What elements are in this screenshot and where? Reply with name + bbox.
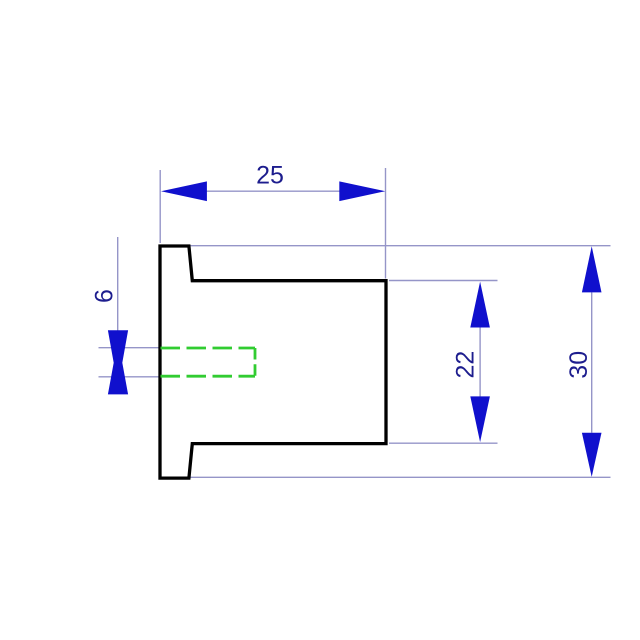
extension line 30-top bbox=[190, 245, 611, 247]
arrow 22-down bbox=[470, 396, 490, 442]
hidden hole bottom edge (green dashed) bbox=[161, 375, 256, 378]
hidden hole top edge (green dashed) bbox=[161, 347, 256, 350]
part outline bbox=[160, 246, 386, 478]
extension line 22-bottom bbox=[389, 442, 498, 444]
arrow 25-right bbox=[339, 181, 385, 201]
svg-text:22: 22 bbox=[452, 351, 480, 379]
extension line 6-bottom bbox=[99, 376, 160, 378]
dimension line 25 bbox=[207, 190, 340, 192]
svg-text:30: 30 bbox=[565, 351, 593, 379]
extension line 25-right bbox=[385, 168, 387, 279]
extension line 30-bottom bbox=[190, 476, 611, 478]
arrow 30-down bbox=[582, 433, 602, 477]
extension line 22-top bbox=[389, 280, 498, 282]
extension line 6-top bbox=[99, 347, 160, 349]
dimension line 22 bbox=[479, 328, 481, 397]
arrow pair 6 (hourglass bowtie) bbox=[108, 330, 128, 394]
arrow 22-up bbox=[470, 282, 490, 328]
extension line 25-left bbox=[159, 170, 161, 243]
svg-text:25: 25 bbox=[256, 162, 284, 190]
dimension line 6 bbox=[117, 237, 119, 331]
arrow 25-left bbox=[161, 181, 207, 201]
dimension line 30 bbox=[591, 292, 593, 433]
arrow 30-up bbox=[582, 246, 602, 292]
svg-text:6: 6 bbox=[91, 289, 119, 303]
hidden hole right edge (green dashed) bbox=[254, 348, 257, 376]
